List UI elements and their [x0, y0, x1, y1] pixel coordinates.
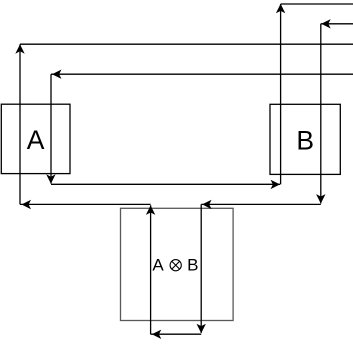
block A tensor B: [121, 208, 234, 320]
wire V1: [19, 44, 21, 204]
wire V3: [280, 4, 282, 184]
wire H3: [51, 183, 280, 185]
arrowhead down V6 bottom: [197, 324, 206, 334]
arrowhead down V2 bottom: [46, 174, 55, 184]
svg-text:A: A: [27, 125, 45, 155]
svg-text:B: B: [187, 256, 198, 275]
svg-text:A: A: [152, 256, 164, 275]
arrowhead left H2: [52, 70, 62, 79]
wire H4: [281, 3, 353, 5]
wire H6L: [20, 203, 151, 205]
arrowhead left H5: [321, 19, 331, 28]
wire V6: [200, 204, 202, 333]
wire H5: [321, 23, 353, 25]
wire H2: [51, 73, 353, 75]
arrowhead down V4 bottom: [316, 194, 325, 204]
svg-text:B: B: [296, 126, 314, 156]
arrowhead left H6L start: [22, 200, 32, 209]
arrowhead up V3 top: [276, 4, 285, 14]
wire H6R: [201, 203, 321, 205]
wire H1: [20, 43, 353, 45]
wire H7: [151, 333, 202, 335]
wire V2: [50, 74, 52, 183]
block A: [1, 104, 70, 173]
arrowhead right H3 end: [271, 180, 281, 189]
wire V4: [320, 24, 322, 204]
arrowhead left H6R: [202, 200, 212, 209]
arrowhead up V5 top: [146, 205, 155, 215]
wire V5: [150, 205, 152, 334]
arrowhead up V1 top: [15, 44, 24, 54]
block B: [270, 104, 340, 174]
arrowhead left H7: [152, 330, 162, 339]
